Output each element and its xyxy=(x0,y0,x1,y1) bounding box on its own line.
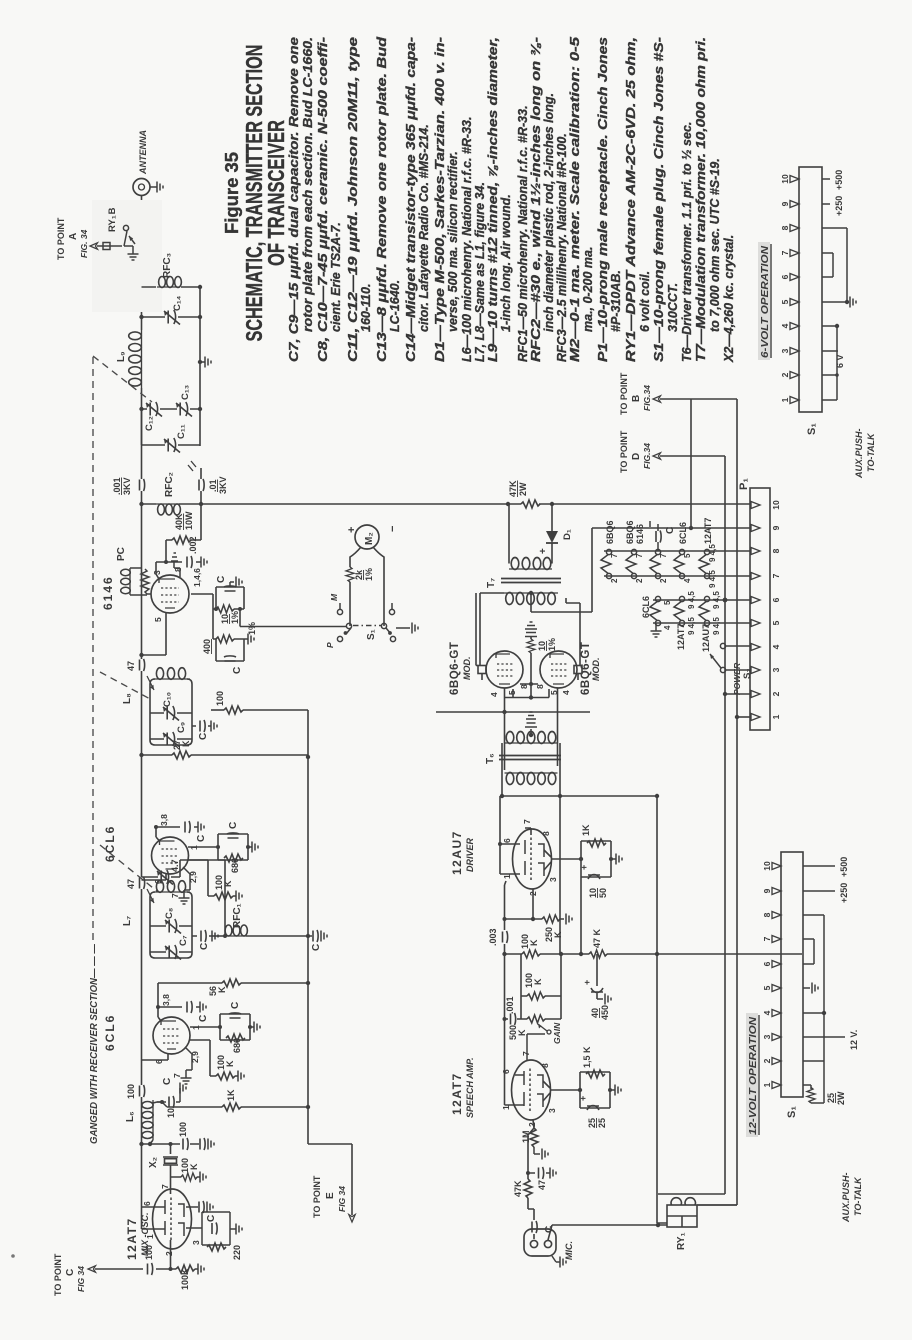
svg-text:2: 2 xyxy=(635,578,644,583)
plate network 680 + C second xyxy=(188,834,252,860)
tube 6CL6 second xyxy=(152,837,189,874)
svg-text:47: 47 xyxy=(126,879,136,889)
svg-text:6: 6 xyxy=(142,1201,152,1206)
svg-text:6146: 6146 xyxy=(635,524,645,544)
svg-text:C: C xyxy=(311,944,322,951)
svg-text:C: C xyxy=(198,733,209,740)
svg-text:C: C xyxy=(196,835,207,842)
svg-text:100K: 100K xyxy=(180,1268,190,1290)
capacitor 100 series osc xyxy=(183,1138,188,1150)
svg-text:2: 2 xyxy=(527,1122,537,1127)
svg-text:40: 40 xyxy=(590,1008,600,1018)
wire 12V jumper 6-7 xyxy=(803,939,814,964)
svg-text:6BQ6-GT: 6BQ6-GT xyxy=(449,642,461,695)
capacitor C14 trimmer xyxy=(164,310,180,325)
svg-text:T₆: T₆ xyxy=(485,753,496,764)
wire cathode bus xyxy=(505,637,549,698)
capacitor C screen bypass second xyxy=(185,821,190,833)
wire pin9 +250 xyxy=(691,399,751,528)
heater labels upper xyxy=(605,518,713,544)
svg-text:C: C xyxy=(232,667,243,674)
svg-text:7: 7 xyxy=(771,573,781,578)
resistor 100K osc grid xyxy=(171,1176,182,1178)
tube 6BQ6 modulator first xyxy=(486,651,523,688)
label P M xyxy=(325,593,339,648)
svg-text:8: 8 xyxy=(780,225,790,230)
ground on output network rail xyxy=(200,361,205,363)
svg-text:100K: 100K xyxy=(214,875,233,890)
bias network 1.5K + 25/25 xyxy=(580,1072,615,1108)
svg-text:C₁₁: C₁₁ xyxy=(176,424,187,439)
tube 6CL6 first xyxy=(153,1017,190,1054)
wire grid 6CL6 second xyxy=(142,873,167,880)
wire point B xyxy=(660,398,737,400)
svg-text:100K: 100K xyxy=(216,1055,235,1070)
resistor 25/2W xyxy=(803,1085,824,1103)
svg-text:5: 5 xyxy=(762,985,772,990)
label 6BQ6-GT MOD second xyxy=(580,642,601,695)
capacitor C T6 center tap + ground xyxy=(525,723,537,735)
svg-text:6: 6 xyxy=(762,961,772,966)
S1 12V pin numbers xyxy=(762,861,772,1087)
svg-text:L₉: L₉ xyxy=(116,351,127,362)
svg-text:M: M xyxy=(329,593,339,601)
svg-text:6: 6 xyxy=(501,1069,511,1074)
label 6BQ6-GT MOD first xyxy=(449,642,472,695)
svg-text:RFC₃: RFC₃ xyxy=(162,252,173,278)
P1 pin numbers xyxy=(771,500,781,719)
svg-text:6: 6 xyxy=(780,274,790,279)
svg-text:9 4,5: 9 4,5 xyxy=(712,617,721,635)
capacitor + ground after 10 ohm xyxy=(525,622,537,637)
svg-text:C: C xyxy=(65,1269,76,1276)
wire B+ HV line xyxy=(142,503,547,505)
capacitor 10/50 electrolytic xyxy=(588,875,600,880)
switch S2 power xyxy=(710,643,751,672)
node arrow D xyxy=(653,453,661,459)
heater 6CL6 a xyxy=(674,549,685,578)
svg-text:3: 3 xyxy=(771,667,781,672)
svg-text:12AT7: 12AT7 xyxy=(450,1072,464,1115)
capacitor 100 series rail xyxy=(140,1085,145,1097)
svg-text:C₁₄: C₁₄ xyxy=(172,295,183,311)
svg-text:TO POINT: TO POINT xyxy=(619,430,629,473)
capacitor .002 + ground xyxy=(187,556,192,568)
svg-text:6CL6: 6CL6 xyxy=(641,596,651,618)
svg-text:6: 6 xyxy=(502,838,512,843)
svg-text:4: 4 xyxy=(683,578,692,583)
resistor 100K second xyxy=(527,992,545,1000)
antenna jack xyxy=(133,179,150,196)
pin labels 6CL6 first xyxy=(154,994,201,1078)
svg-text:#P-310AB.: #P-310AB. xyxy=(609,270,623,332)
svg-text:Figure 35: Figure 35 xyxy=(222,152,242,234)
svg-text:M₂: M₂ xyxy=(364,532,375,545)
svg-text:9 4,5: 9 4,5 xyxy=(687,617,696,635)
svg-text:12 V.: 12 V. xyxy=(849,1030,859,1050)
svg-text:4: 4 xyxy=(561,690,571,695)
ground mic xyxy=(552,1256,560,1262)
svg-text:6 volt coil.: 6 volt coil. xyxy=(638,271,652,332)
heater pin digits upper xyxy=(610,544,717,588)
transformer T6 xyxy=(499,732,561,785)
wire output network drops xyxy=(142,287,201,445)
wire screen 6146 xyxy=(156,540,201,579)
wire PTT line A xyxy=(658,456,725,1194)
svg-text:AUX.PUSH-: AUX.PUSH- xyxy=(841,1172,851,1223)
tube 12AU7 driver xyxy=(513,829,552,889)
tube 12AT7 speech amp xyxy=(512,1060,551,1120)
wire grids to T6 xyxy=(505,688,558,770)
capacitor 25/25 electrolytic xyxy=(587,1106,599,1111)
plate top cap second xyxy=(566,598,582,680)
svg-text:P₁: P₁ xyxy=(738,478,750,490)
svg-text:100: 100 xyxy=(126,1084,136,1099)
svg-text:100K: 100K xyxy=(520,934,539,949)
svg-text:100K: 100K xyxy=(180,1158,199,1173)
node gang arrow L7 xyxy=(147,889,154,903)
svg-text:C: C xyxy=(228,822,239,829)
node arrow A xyxy=(90,243,98,249)
node junction dots rail xyxy=(139,285,143,1146)
svg-text:1%: 1% xyxy=(547,638,557,651)
svg-text:RFC3—2.5 millihenry. National: RFC3—2.5 millihenry. National #R-100. xyxy=(555,133,569,362)
wire cathode 2,9 second xyxy=(188,860,214,896)
svg-text:to 7,000 ohm sec. UTC #S-19.: to 7,000 ohm sec. UTC #S-19. xyxy=(708,158,722,332)
svg-text:RFC1—50 microhenry. National r: RFC1—50 microhenry. National r.f.c. #R-3… xyxy=(516,105,530,362)
svg-text:47: 47 xyxy=(537,1180,547,1190)
svg-text:12AU7: 12AU7 xyxy=(701,624,711,652)
capacitor C tank second + ground xyxy=(192,725,211,727)
wire 12AU7 plates xyxy=(500,796,520,874)
tube 6146 xyxy=(151,575,189,613)
capacitor C tank + ground xyxy=(192,935,212,937)
wire RY1 to line B xyxy=(697,1204,737,1206)
svg-text:+: + xyxy=(579,865,589,870)
svg-text:GANGED WITH RECEIVER SECTION—: GANGED WITH RECEIVER SECTION— — — xyxy=(88,944,100,1144)
wire audio divider vertical xyxy=(505,953,803,955)
svg-text:.01: .01 xyxy=(208,479,218,492)
wire osc plate feeds xyxy=(142,1144,166,1229)
svg-text:7: 7 xyxy=(762,936,772,941)
svg-text:4: 4 xyxy=(489,692,499,697)
resistor 400 1% PA cathode with C box xyxy=(213,639,248,661)
wire S1 to PA cathode metering xyxy=(240,626,346,628)
svg-text:L₆: L₆ xyxy=(125,1111,136,1122)
tank L7 box xyxy=(150,892,192,958)
heater labels lower xyxy=(641,596,711,652)
svg-text:SPEECH AMP.: SPEECH AMP. xyxy=(465,1057,475,1118)
label TO POINT B xyxy=(619,372,652,415)
svg-text:C: C xyxy=(216,576,227,583)
svg-text:2: 2 xyxy=(762,1058,772,1063)
svg-text:L7, L8—Same as L1, figure 34.: L7, L8—Same as L1, figure 34. xyxy=(473,182,487,362)
wire speech grid 7 to wiper xyxy=(527,1034,545,1060)
svg-text:3,8: 3,8 xyxy=(161,994,171,1006)
wire 12V pin9 +250 xyxy=(803,890,835,892)
svg-text:100K: 100K xyxy=(524,973,543,988)
wire T6 primary to 12AU7 xyxy=(502,743,657,954)
svg-text:.002: .002 xyxy=(188,536,198,554)
wire 6V pin10 +500 xyxy=(822,178,830,180)
svg-text:+250: +250 xyxy=(839,883,849,903)
resistor 1M + ground xyxy=(533,1120,534,1128)
heater 12AT7 b xyxy=(674,596,685,625)
svg-text:D1—Type M-500, Sarkes-Tarzian.: D1—Type M-500, Sarkes-Tarzian. 400 v. in… xyxy=(433,37,447,362)
svg-text:ANTENNA: ANTENNA xyxy=(138,130,148,175)
switch S1 meter xyxy=(337,603,410,642)
resistor 1K osc plate feed xyxy=(157,1102,308,1107)
pin labels 12AT7 xyxy=(142,1184,201,1256)
wire y561 tie xyxy=(521,877,581,1019)
svg-text:−: − xyxy=(387,526,399,532)
svg-text:3KV: 3KV xyxy=(122,477,132,495)
wire pin2 xyxy=(725,693,751,695)
svg-text:AUX.PUSH-: AUX.PUSH- xyxy=(854,428,864,479)
svg-text:2k: 2k xyxy=(354,569,364,580)
label TO POINT C xyxy=(53,1253,86,1296)
tube 6BQ6 modulator second xyxy=(540,651,577,688)
svg-text:10: 10 xyxy=(762,861,772,871)
svg-text:9 4,5: 9 4,5 xyxy=(712,591,721,609)
S1 6V pins xyxy=(790,176,799,404)
svg-text:47K: 47K xyxy=(508,480,518,497)
svg-text:D: D xyxy=(631,453,642,460)
svg-text:6146: 6146 xyxy=(101,575,115,610)
ground speech bias xyxy=(615,1085,621,1096)
wire mic grid line xyxy=(528,1128,534,1239)
svg-text:C7, C9—15 μμfd. dual capacitor: C7, C9—15 μμfd. dual capacitor. Remove o… xyxy=(287,37,301,362)
wire meter plus lead with 2K xyxy=(350,547,384,626)
wire cathode 2,9 network xyxy=(190,1040,216,1076)
svg-text:C: C xyxy=(206,1215,217,1222)
wire 12V pin3 xyxy=(803,1036,845,1038)
heater rails upper xyxy=(604,551,751,576)
svg-text:B: B xyxy=(631,395,642,402)
resistor 1.5K xyxy=(586,1070,605,1078)
wire 12V pin8 tie xyxy=(803,915,824,1013)
svg-text:S₂: S₂ xyxy=(742,668,753,679)
capacitor C7 trimmer xyxy=(150,951,192,953)
svg-text:10: 10 xyxy=(588,888,598,898)
wire cathode 2 tie xyxy=(525,828,533,919)
svg-text:10: 10 xyxy=(537,641,547,651)
svg-text:2: 2 xyxy=(610,578,619,583)
svg-text:1: 1 xyxy=(145,1234,155,1239)
svg-text:C₁₃: C₁₃ xyxy=(180,385,191,400)
resistor 47K 2W xyxy=(521,500,540,508)
coil L9 xyxy=(129,330,142,388)
svg-text:10: 10 xyxy=(166,1108,176,1118)
svg-text:6BQ6: 6BQ6 xyxy=(605,520,615,544)
node arrow C xyxy=(88,1266,96,1272)
svg-text:+500: +500 xyxy=(834,170,844,190)
label POWER S2 xyxy=(732,662,753,695)
svg-text:2W: 2W xyxy=(518,482,528,496)
svg-text:4.7: 4.7 xyxy=(170,859,180,872)
plate top cap first xyxy=(476,593,487,680)
svg-text:6CL6: 6CL6 xyxy=(103,825,117,862)
capacitor 47 series rail first xyxy=(140,877,145,889)
svg-text:160-110.: 160-110. xyxy=(359,284,373,332)
parts list xyxy=(287,36,736,363)
svg-text:5: 5 xyxy=(771,620,781,625)
svg-text:S₁: S₁ xyxy=(366,629,377,640)
wire point D xyxy=(660,455,725,457)
ground at RY1B xyxy=(124,246,133,254)
svg-text:450: 450 xyxy=(600,1005,610,1020)
svg-text:9: 9 xyxy=(780,201,790,206)
svg-text:C8, C10—7-45 μμfd. ceramic. N-: C8, C10—7-45 μμfd. ceramic. N-500 coeffi… xyxy=(316,37,330,362)
svg-text:100: 100 xyxy=(144,1245,154,1260)
svg-text:400: 400 xyxy=(202,639,212,654)
svg-text:6-VOLT OPERATION: 6-VOLT OPERATION xyxy=(760,245,771,358)
svg-text:TO-TALK: TO-TALK xyxy=(866,432,876,472)
svg-text:8: 8 xyxy=(762,912,772,917)
svg-text:C14—Midget transistor-type 365: C14—Midget transistor-type 365 μμfd. cap… xyxy=(404,37,418,362)
svg-text:TO POINT: TO POINT xyxy=(312,1175,322,1218)
svg-text:5: 5 xyxy=(153,617,163,622)
P1 pins xyxy=(751,502,760,721)
svg-text:C: C xyxy=(199,943,210,950)
choke PC parasitic xyxy=(121,568,151,595)
svg-text:L₈: L₈ xyxy=(122,693,133,704)
wire cathode 7 + ground second xyxy=(183,867,190,898)
svg-text:3: 3 xyxy=(547,1108,557,1113)
wire speech plates xyxy=(505,885,525,1105)
svg-text:1%: 1% xyxy=(247,622,257,635)
resistor 10 1% PA cathode with C box xyxy=(191,587,244,639)
wire grid 6 coupling line xyxy=(505,881,565,919)
tube 12AT7 mix-osc xyxy=(153,1189,192,1249)
svg-text:T₇: T₇ xyxy=(486,578,497,588)
svg-text:.001: .001 xyxy=(112,477,122,495)
wire S1 lower contact stub xyxy=(391,603,393,609)
label TO POINT A xyxy=(56,217,89,260)
coil L6 xyxy=(142,1100,162,1144)
svg-text:TO POINT: TO POINT xyxy=(56,217,66,260)
svg-text:+: + xyxy=(582,980,592,985)
ground heater rail xyxy=(655,623,657,631)
svg-text:MOD.: MOD. xyxy=(462,657,472,681)
svg-text:1: 1 xyxy=(780,397,790,402)
svg-text:TO POINT: TO POINT xyxy=(619,372,629,415)
svg-text:680: 680 xyxy=(230,858,240,873)
choke RFC1 xyxy=(212,925,308,936)
svg-text:+: + xyxy=(538,548,549,554)
svg-text:RFC₁: RFC₁ xyxy=(232,903,243,928)
figure title xyxy=(222,45,289,342)
svg-text:7: 7 xyxy=(522,819,532,824)
capacitor 100 series xyxy=(148,1263,153,1275)
capacitor 10 with ground at L6 xyxy=(162,1088,180,1102)
svg-text:4: 4 xyxy=(780,323,790,328)
capacitor C mic series xyxy=(532,1221,537,1233)
ground at antenna jack xyxy=(150,186,157,188)
svg-text:A: A xyxy=(68,233,79,240)
ground 12AU7 bias xyxy=(616,854,622,865)
capacitor 47 series rail second xyxy=(140,659,145,671)
svg-text:C: C xyxy=(665,527,676,534)
wire RY1 coil line xyxy=(657,798,667,1223)
capacitor C bus bypass + ground xyxy=(308,935,312,937)
wire mic PTT line xyxy=(548,1225,667,1240)
wire T7 plate leads xyxy=(480,593,504,666)
svg-text:100: 100 xyxy=(215,691,225,706)
resistor 56K screen xyxy=(222,979,241,987)
pin labels 12AT7 speech xyxy=(501,1051,557,1127)
coil L7 xyxy=(153,881,190,893)
capacitor .001 + wire xyxy=(505,1018,522,1020)
svg-text:rotor plate from each section.: rotor plate from each section. Bud LC-16… xyxy=(301,37,315,332)
heater rails lower xyxy=(653,600,751,623)
svg-text:7: 7 xyxy=(610,553,619,558)
plate network 680 + C first xyxy=(190,1014,254,1040)
resistor 100K first xyxy=(522,950,540,958)
svg-text:12AT7: 12AT7 xyxy=(703,518,713,544)
pin labels 6CL6 second xyxy=(153,814,199,898)
svg-text:L₇: L₇ xyxy=(122,916,133,926)
svg-text:8: 8 xyxy=(541,831,551,836)
wire grid 6146 xyxy=(142,613,167,655)
pin labels 12AU7 xyxy=(502,819,558,896)
svg-text:1: 1 xyxy=(762,1082,772,1087)
svg-text:25: 25 xyxy=(587,1118,597,1128)
node gang arrow L8 xyxy=(147,676,154,690)
svg-text:2W: 2W xyxy=(836,1091,846,1105)
svg-text:12AU7: 12AU7 xyxy=(450,830,464,875)
svg-text:4: 4 xyxy=(762,1010,772,1015)
svg-text:6: 6 xyxy=(771,597,781,602)
wire 6V jumper 6-7 xyxy=(822,253,833,277)
diode D1 xyxy=(546,504,558,557)
wire grid 7 xyxy=(170,1177,172,1194)
S1 12V pins xyxy=(772,863,781,1089)
svg-text:25: 25 xyxy=(826,1093,836,1103)
ground 6146 pin 8 xyxy=(174,561,180,577)
choke RFC3 xyxy=(157,277,181,288)
microphone jack MIC xyxy=(524,1229,556,1256)
svg-text:C₇: C₇ xyxy=(178,935,189,946)
svg-text:C13—8 μμfd. Remove one rotor p: C13—8 μμfd. Remove one rotor plate. Bud xyxy=(375,37,389,362)
heater 12AU7 xyxy=(699,596,710,625)
svg-text:310CCT.: 310CCT. xyxy=(666,283,680,332)
svg-text:FIG 34: FIG 34 xyxy=(76,1266,86,1292)
svg-text:9 4,5: 9 4,5 xyxy=(687,591,696,609)
svg-text:3: 3 xyxy=(780,348,790,353)
svg-text:9 4,5: 9 4,5 xyxy=(708,544,717,562)
resistor 100K cathode second xyxy=(214,892,233,900)
connector P1 xyxy=(750,488,770,730)
svg-text:8: 8 xyxy=(540,1063,550,1068)
label TO POINT D xyxy=(619,430,652,473)
wire PTT line B xyxy=(698,399,737,1205)
svg-text:TO POINT: TO POINT xyxy=(53,1253,63,1296)
svg-text:7: 7 xyxy=(780,250,790,255)
connector S1 twelve volt xyxy=(781,852,803,1097)
svg-text:7: 7 xyxy=(521,1051,531,1056)
svg-text:9 4,5: 9 4,5 xyxy=(708,570,717,588)
heater 6CL6 b xyxy=(650,596,661,625)
svg-text:50: 50 xyxy=(598,888,608,898)
svg-text:1%: 1% xyxy=(364,568,374,581)
wire T7 secondary to B+ xyxy=(509,504,552,564)
svg-text:2: 2 xyxy=(771,691,781,696)
wire main grid/tank rail xyxy=(141,230,143,1144)
node arrow B xyxy=(653,396,661,402)
svg-text:LC-1640.: LC-1640. xyxy=(388,280,402,332)
tank L8 box xyxy=(150,679,192,745)
